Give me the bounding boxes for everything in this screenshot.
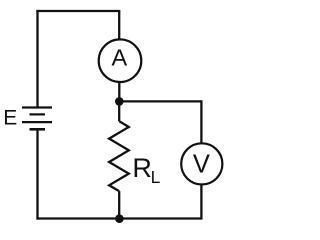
ammeter circle (99, 39, 142, 82)
wire left upper (top wire down to battery) (36, 10, 38, 108)
svg-text:V: V (193, 150, 210, 178)
wire bottom (36, 217, 201, 219)
resistor RL zigzag (109, 121, 129, 191)
node junction top (115, 97, 124, 106)
wire ammeter bottom lead (118, 82, 120, 102)
wire resistor bottom lead (118, 191, 120, 218)
svg-text:R: R (132, 153, 152, 183)
wire left lower (battery to bottom wire) (36, 129, 38, 219)
svg-text:E: E (3, 106, 17, 129)
wire right upper (to voltmeter) (200, 100, 202, 143)
wire right lower (voltmeter to bottom wire) (200, 184, 202, 219)
wire top (battery to ammeter branch) (36, 10, 120, 12)
svg-text:A: A (111, 45, 127, 71)
voltmeter circle (181, 143, 222, 184)
battery E plate 1 (long) (22, 106, 52, 108)
node junction bottom (115, 214, 124, 223)
battery E plate 3 (long) (22, 121, 52, 123)
wire ammeter top lead (118, 11, 120, 40)
battery E plate 4 (short) (30, 128, 46, 131)
battery E plate 2 (short) (30, 113, 46, 115)
svg-text:L: L (151, 167, 161, 187)
wire resistor top lead (118, 101, 120, 121)
wire node to right branch (119, 100, 201, 102)
